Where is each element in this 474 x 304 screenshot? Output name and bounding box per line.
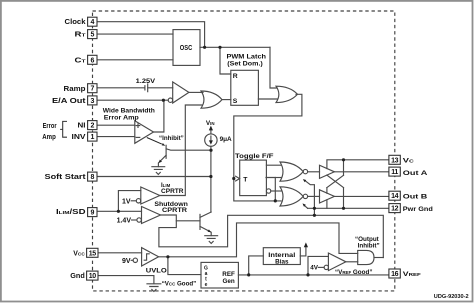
svg-text:Amp: Amp: [42, 134, 56, 141]
svg-text:4V: 4V: [310, 265, 319, 272]
bubble PWM comparator input: [168, 98, 172, 102]
pin 1 box: [88, 132, 97, 141]
minus sign error amp: [136, 136, 140, 138]
svg-text:(Set Dom.): (Set Dom.): [227, 60, 262, 67]
svg-text:CPRTR: CPRTR: [162, 208, 188, 214]
wire clock branch up to NOR A lower input: [266, 178, 275, 201]
svg-text:1.25V: 1.25V: [136, 78, 156, 85]
pin 2 box: [88, 121, 97, 130]
svg-text:“Inhibit”: “Inhibit”: [159, 135, 184, 142]
wire clock down to blanking OR: [270, 47, 277, 88]
node E/A out: [162, 99, 165, 102]
svg-text:8: 8: [90, 174, 94, 181]
node pwr gnd totem: [342, 207, 345, 210]
bubble UVLO 9V input: [133, 258, 137, 262]
svg-text:9V: 9V: [122, 258, 131, 265]
and-gate output inhibit: [358, 250, 374, 264]
wire VREF tap to internal bias input: [249, 256, 264, 275]
svg-text:“VREF Good”: “VREF Good”: [335, 269, 373, 276]
svg-text:CT: CT: [75, 57, 86, 64]
node toggle T: [232, 177, 235, 180]
node soft start: [209, 175, 212, 178]
node inhibit collector: [209, 149, 212, 152]
wire RT pin5 to OSC: [97, 33, 173, 35]
wire node to latch R input: [220, 47, 231, 74]
svg-text:9μA: 9μA: [220, 136, 232, 143]
or-gate blanking OR: [276, 86, 298, 102]
IC boundary dashed box: [93, 11, 395, 291]
wire NI pin2 to error amp: [97, 124, 135, 126]
svg-text:11: 11: [391, 169, 398, 176]
svg-text:Pwr Gnd: Pwr Gnd: [403, 206, 433, 213]
transistor Q-inhibit collector: [166, 149, 211, 150]
wire internal bias output arrow stem: [300, 245, 306, 256]
wire OSC clock output: [200, 46, 270, 48]
wire Vref-good output to AND: [346, 261, 358, 263]
or-gate PWM OR: [201, 91, 222, 108]
wire inhibit pointer: [147, 138, 162, 145]
svg-text:VCC: VCC: [73, 250, 85, 257]
ground chip gnd: [146, 284, 161, 292]
wire current source to soft-start node down to restart collector: [210, 146, 212, 212]
pin 3 box: [88, 96, 97, 105]
arrowhead NOR A inhibit: [303, 179, 306, 182]
op-amp U-EA error amplifier: [135, 121, 154, 144]
wire battery to PWM comparator: [148, 87, 173, 89]
latch U-PWM box: [231, 70, 259, 105]
wire Vc rail: [327, 160, 390, 169]
nor-gate A: [280, 162, 303, 181]
svg-text:UDG-92030-2: UDG-92030-2: [434, 294, 469, 300]
wire shutdown output inhibit net snake to rail A and AND output: [159, 215, 383, 258]
svg-text:16: 16: [391, 271, 398, 278]
wire VREF tap to Vref-good comparator: [308, 256, 328, 275]
bubble 4V input: [324, 265, 328, 269]
bubble NOR B output: [303, 194, 307, 198]
svg-text:15: 15: [89, 250, 96, 257]
node NOR clock branch: [274, 199, 277, 202]
svg-text:2: 2: [90, 123, 94, 130]
bracket error amp: [60, 121, 67, 137]
node Vc totem: [342, 158, 345, 161]
pin 5 box: [88, 30, 97, 39]
svg-text:OSC: OSC: [180, 45, 193, 52]
node clock/OSC junction: [203, 46, 206, 49]
node ILIM input: [117, 210, 120, 213]
node pwr gnd arrows: [313, 207, 316, 210]
wire totem cross diagonals: [327, 175, 344, 188]
svg-text:1V: 1V: [122, 198, 131, 205]
wire toggle Q to NOR A: [266, 164, 281, 166]
svg-text:“VCC Good”: “VCC Good”: [162, 281, 197, 288]
svg-text:10: 10: [89, 273, 96, 280]
box internal bias: [263, 248, 300, 265]
bubble shutdown inverting input: [137, 218, 141, 222]
wire NOR B output to driver B: [308, 195, 320, 197]
node VREF internal bias tap: [247, 273, 250, 276]
svg-text:7: 7: [90, 86, 94, 93]
wire UVLO output Vcc-good to AND gate rail B: [159, 223, 358, 257]
svg-text:NI: NI: [78, 123, 86, 130]
wire 1.4V to bubble: [132, 219, 137, 221]
wire 9V to bubble: [131, 259, 133, 261]
ground restart transistor: [204, 236, 218, 244]
pin 8 box: [88, 172, 97, 181]
svg-text:9: 9: [90, 210, 94, 217]
current source circle 9uA: [205, 134, 217, 146]
wire NOR A output to driver A: [308, 171, 320, 173]
wire Gnd pin10 to ground: [97, 276, 154, 284]
wire Ramp pin7 to battery: [97, 87, 144, 89]
transistor Q-restart collector: [200, 212, 211, 217]
driver triangle A: [320, 165, 335, 178]
wire Out B: [334, 195, 389, 197]
pin 10 box: [87, 271, 98, 280]
wire VIN arrow stem: [210, 128, 212, 134]
wire Vcc pin15 to UVLO: [97, 252, 142, 254]
svg-text:Toggle F/F: Toggle F/F: [235, 153, 274, 160]
wire error amp output feedback to E/A node: [154, 100, 164, 132]
svg-text:R: R: [233, 73, 238, 80]
wire restart base branch: [176, 220, 200, 222]
node inhibit rail: [313, 214, 316, 217]
transistor Q-inhibit emitter: [158, 155, 166, 166]
svg-text:14: 14: [391, 193, 398, 200]
ground inhibit transistor: [151, 167, 165, 175]
bubble toggle Qbar: [266, 189, 270, 193]
arrowhead inhibit pointer: [162, 143, 166, 146]
svg-text:Inhibit”: Inhibit”: [358, 243, 380, 250]
pin 4 box: [88, 17, 97, 26]
svg-text:Shutdown: Shutdown: [154, 202, 188, 208]
pin 14 box: [389, 191, 400, 200]
svg-text:Error: Error: [43, 123, 57, 130]
svg-text:Out A: Out A: [403, 170, 428, 177]
T input open arrow: [236, 176, 240, 181]
wire Soft Start pin8: [97, 176, 211, 178]
wire VREF rail to pin16: [238, 274, 389, 276]
wire ILIM rail to PWM OR lower input: [160, 105, 202, 196]
transistor Q-inhibit base bar: [165, 145, 167, 158]
svg-text:Clock: Clock: [65, 19, 86, 26]
plus sign error amp: [136, 124, 140, 128]
svg-text:3: 3: [90, 98, 94, 105]
svg-text:Gen: Gen: [222, 278, 234, 285]
svg-text:VREF: VREF: [403, 271, 421, 278]
arrowhead Q-restart emitter: [208, 229, 211, 232]
svg-text:ILIM/SD: ILIM/SD: [56, 209, 86, 216]
svg-text:1: 1: [90, 134, 94, 141]
hysteresis glyph inside UVLO: [144, 254, 149, 260]
svg-text:E/A Out: E/A Out: [52, 98, 86, 105]
svg-text:13: 13: [391, 157, 398, 164]
svg-text:12: 12: [391, 206, 398, 213]
pin 12 box: [389, 204, 400, 213]
osc U-OSC box: [173, 30, 200, 66]
arrowhead NOR B inhibit: [303, 203, 306, 206]
flip-flop U-toggle box: [240, 160, 267, 196]
arrowhead current source down: [209, 140, 213, 144]
pin 16 box: [389, 269, 400, 278]
comparator U-ILIM: [141, 187, 160, 204]
wire Pwr Gnd rail: [308, 207, 390, 209]
svg-text:Gnd: Gnd: [70, 273, 85, 280]
wire comparator output to PWM OR: [189, 91, 203, 93]
nor-gate B: [280, 187, 303, 206]
node OSC out to R branch: [218, 46, 221, 49]
driver triangle B: [320, 190, 335, 203]
wire ILIM comparator noninverting input: [118, 191, 140, 212]
svg-text:Soft Start: Soft Start: [45, 174, 87, 181]
wire E/A Out pin3 to comparator inverting bubble: [97, 99, 168, 101]
transistor Q-restart emitter: [200, 226, 211, 235]
wire inhibit feed to NOR arrows: [304, 180, 314, 215]
wire Clock pin4 to OSC output node: [97, 22, 205, 48]
arrowhead internal bias up: [304, 242, 308, 247]
svg-text:CPRTR: CPRTR: [161, 189, 184, 195]
comparator U-UVLO: [142, 248, 159, 266]
wire totem vertical: [343, 160, 345, 176]
svg-text:Bias: Bias: [275, 259, 289, 266]
wire ILIM/SD pin9: [97, 210, 142, 212]
pin 6 box: [88, 55, 97, 64]
op-amp PWM comparator: [173, 82, 189, 103]
svg-text:4: 4: [90, 19, 94, 26]
wire 4V to bubble: [318, 266, 324, 268]
transistor Q-restart base bar: [199, 214, 201, 229]
comparator U-shutdown: [142, 207, 161, 224]
wire clock line to NOR B lower input: [234, 179, 281, 201]
svg-text:6: 6: [90, 57, 94, 64]
wire 1V to bubble: [131, 200, 136, 202]
wire toggle Qbar to NOR B: [271, 190, 281, 192]
box REF Gen: [201, 262, 238, 288]
svg-text:VIN: VIN: [206, 120, 215, 127]
svg-text:Out B: Out B: [403, 193, 428, 200]
svg-text:5: 5: [90, 32, 94, 39]
svg-text:UVLO: UVLO: [146, 267, 167, 274]
comparator U-VrefGood: [328, 253, 346, 271]
wire blanking OR output to toggle T: [234, 94, 302, 178]
battery 1.25V: [145, 84, 148, 92]
node VREF comparator tap: [306, 273, 309, 276]
svg-text:Ramp: Ramp: [64, 86, 86, 93]
node UVLO output: [166, 255, 169, 258]
pin 15 box: [87, 248, 98, 257]
arrowhead Q-inhibit emitter: [159, 160, 162, 163]
wire INV pin1 to error amp: [97, 136, 135, 138]
svg-text:e: e: [205, 282, 208, 288]
pin 7 box: [88, 84, 97, 93]
wire PWM OR output to latch S: [222, 99, 231, 101]
svg-text:1.4V: 1.4V: [117, 217, 132, 224]
wire latch Q to blanking OR: [258, 98, 277, 100]
svg-text:RT: RT: [75, 32, 86, 39]
arrowhead VIN up: [209, 126, 213, 131]
wire Vcc-good down to REF Gen gate input: [168, 257, 201, 275]
bubble NOR A output: [303, 169, 307, 173]
pin 11 box: [389, 167, 400, 176]
wire AND output: [374, 257, 383, 259]
bubble ILIM inverting input: [136, 199, 140, 203]
svg-text:INV: INV: [72, 134, 86, 141]
pin 9 box: [88, 208, 97, 217]
wire CT pin6 to OSC: [97, 59, 173, 61]
wire Out A: [334, 171, 389, 173]
svg-text:Error Amp: Error Amp: [104, 114, 139, 121]
pin 13 box: [389, 155, 400, 164]
svg-text:S: S: [233, 98, 238, 105]
svg-text:VC: VC: [403, 157, 415, 164]
